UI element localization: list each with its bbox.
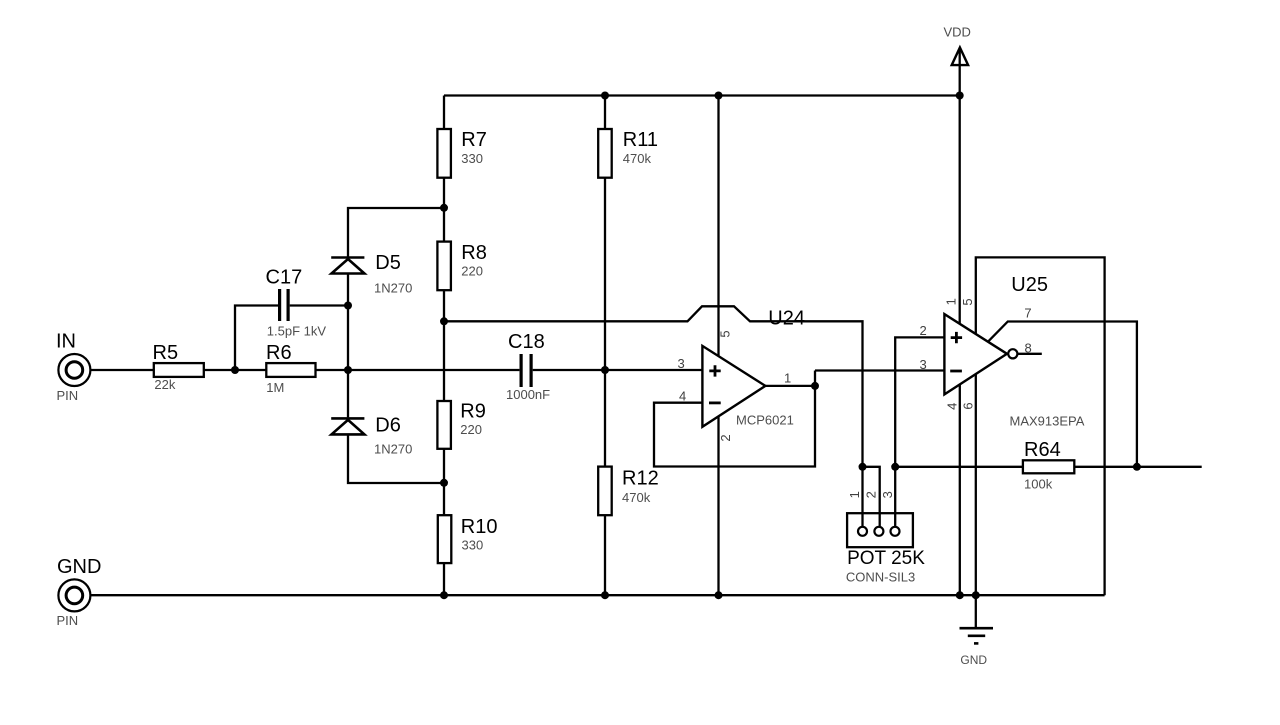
wire top supply bus	[444, 94, 960, 96]
wire U24 minus feedback loop	[654, 371, 815, 467]
svg-text:D6: D6	[375, 414, 401, 436]
svg-text:22k: 22k	[154, 377, 175, 392]
svg-text:1: 1	[944, 298, 959, 305]
wire IN to R5	[91, 369, 154, 371]
svg-text:R5: R5	[153, 342, 179, 364]
wire U25 pin6 to ground bus	[975, 374, 977, 595]
svg-text:D5: D5	[375, 252, 401, 274]
wire C17 to D5 stem	[290, 304, 348, 306]
svg-text:VDD: VDD	[944, 24, 971, 39]
svg-text:100k: 100k	[1024, 477, 1053, 492]
svg-text:GND: GND	[960, 653, 987, 667]
svg-text:3: 3	[880, 491, 895, 498]
wire U25 pin4 to ground bus	[959, 385, 961, 596]
svg-text:R6: R6	[266, 342, 292, 364]
svg-text:2: 2	[864, 491, 879, 498]
wire U25 plus input branch	[895, 337, 944, 466]
svg-text:220: 220	[461, 263, 483, 278]
svg-text:4: 4	[944, 403, 959, 410]
wire R64 left	[895, 466, 1023, 468]
ground symbol GND	[960, 595, 994, 667]
connector POT 25K CONN-SIL3	[846, 513, 925, 584]
wire R8 to R9	[443, 290, 445, 401]
node U25 pin4/bus junction	[956, 591, 964, 599]
node R11/bus junction	[601, 92, 609, 100]
svg-text:U24: U24	[768, 307, 805, 329]
capacitor C18	[506, 331, 550, 402]
svg-text:330: 330	[462, 537, 484, 552]
wire R11 top to bus	[604, 96, 606, 130]
svg-text:MAX913EPA: MAX913EPA	[1010, 413, 1085, 428]
svg-text:POT 25K: POT 25K	[847, 548, 925, 569]
svg-text:1N270: 1N270	[374, 281, 412, 296]
node R10/bus junction	[440, 591, 448, 599]
node R7/R8/D5 junction	[440, 204, 448, 212]
svg-text:R64: R64	[1024, 439, 1061, 461]
wire R7 to R8	[443, 178, 445, 242]
node U24 pin5/bus junction	[715, 92, 723, 100]
svg-text:3: 3	[920, 357, 927, 372]
wire VDD to U25 pin1	[959, 49, 961, 324]
svg-text:MCP6021: MCP6021	[736, 412, 794, 427]
wire D5 anode to node B	[347, 275, 349, 371]
resistor R5	[153, 342, 204, 392]
wire R64 right	[1074, 466, 1201, 468]
svg-text:1000nF: 1000nF	[506, 387, 550, 402]
node R8/R9/hop junction	[440, 317, 448, 325]
resistor R7	[437, 129, 486, 178]
svg-text:C18: C18	[508, 331, 545, 353]
wire R11 to R12	[604, 178, 606, 467]
svg-text:6: 6	[961, 402, 976, 409]
wire U25 pin7 output	[988, 322, 1137, 467]
wire hop line R8/R9 junction to U25 plus branch	[444, 306, 863, 467]
connector IN pin	[58, 354, 90, 386]
svg-text:CONN-SIL3: CONN-SIL3	[846, 569, 915, 584]
node R64/pin7 junction	[1133, 463, 1141, 471]
node U25 pin6/GND junction	[972, 591, 980, 599]
wire R7 top to bus	[443, 96, 445, 130]
svg-text:C17: C17	[266, 267, 303, 289]
comparator U25	[944, 274, 1084, 429]
wire D6 bottom to R9/R10 junction	[348, 436, 444, 484]
node VDD/bus junction	[956, 92, 964, 100]
diode D6	[331, 414, 412, 456]
resistor R10	[438, 515, 498, 563]
wire node B to D6	[347, 370, 349, 417]
wire U25 pin5 box path	[976, 257, 1105, 595]
wire R6 to node B	[316, 369, 349, 371]
wire C17 branch up	[235, 306, 278, 371]
wire U25 pin8 output stub	[1017, 353, 1041, 355]
connector GND pin	[58, 579, 90, 611]
wire POT pin1	[861, 467, 863, 527]
svg-text:5: 5	[718, 330, 733, 337]
wire POT pin3	[894, 467, 896, 527]
svg-text:U25: U25	[1011, 274, 1048, 296]
wire R12 to ground bus	[604, 515, 606, 595]
svg-text:3: 3	[678, 356, 685, 371]
resistor R9	[437, 401, 485, 449]
svg-text:GND: GND	[57, 556, 101, 578]
wire D5 top to R7/R8 junction	[348, 208, 444, 257]
node main/R11-R12 junction	[601, 366, 609, 374]
svg-text:R10: R10	[461, 516, 498, 538]
svg-text:PIN: PIN	[57, 613, 79, 628]
node R9/R10/D6 junction	[440, 479, 448, 487]
svg-text:1N270: 1N270	[374, 442, 412, 457]
resistor R8	[437, 242, 486, 291]
svg-text:IN: IN	[56, 331, 76, 353]
op-amp U24	[702, 307, 805, 427]
wire U24 output	[765, 385, 815, 387]
wire R10 to ground bus	[443, 563, 445, 595]
node B junction main/D5/D6	[344, 366, 352, 374]
resistor R6	[266, 342, 316, 395]
svg-text:1.5pF 1kV: 1.5pF 1kV	[267, 324, 327, 339]
wire POT pin2 stub	[863, 467, 880, 527]
svg-text:220: 220	[460, 422, 482, 437]
capacitor C17	[266, 267, 327, 339]
svg-text:330: 330	[461, 151, 483, 166]
svg-text:1: 1	[847, 491, 862, 498]
svg-text:R12: R12	[622, 467, 659, 489]
svg-text:2: 2	[920, 323, 927, 338]
wire bottom ground bus	[91, 594, 1105, 596]
diode D5	[331, 252, 412, 296]
resistor R12	[598, 467, 659, 516]
wire U24 pin2 to ground bus	[717, 416, 719, 595]
svg-text:7: 7	[1024, 305, 1031, 320]
svg-text:470k: 470k	[622, 490, 651, 505]
resistor R11	[598, 129, 658, 178]
svg-text:PIN: PIN	[57, 388, 79, 403]
node A junction R5/R6/C17	[231, 366, 239, 374]
node C17/D5 junction	[344, 302, 352, 310]
svg-text:R11: R11	[623, 129, 658, 151]
svg-text:4: 4	[679, 389, 686, 404]
svg-text:5: 5	[960, 298, 975, 305]
svg-text:2: 2	[718, 434, 733, 441]
svg-text:R8: R8	[461, 242, 487, 264]
node hop/POT1 junction	[859, 463, 867, 471]
resistor R64	[1023, 439, 1074, 491]
wire U24 pin5 supply	[717, 96, 719, 357]
svg-text:1: 1	[784, 370, 791, 385]
wire R5 to node A	[204, 369, 266, 371]
node U25+/POT3/R64 junction	[891, 463, 899, 471]
wire U24 out to U25 minus input	[815, 369, 944, 371]
wire main line node B to C18	[348, 369, 519, 371]
svg-text:R7: R7	[461, 129, 487, 151]
wire R9 to R10	[443, 449, 445, 515]
node R12/bus junction	[601, 591, 609, 599]
svg-text:470k: 470k	[623, 151, 652, 166]
node U24 output junction	[811, 382, 819, 390]
power VDD symbol	[944, 24, 971, 65]
svg-text:R9: R9	[460, 401, 486, 423]
svg-text:1M: 1M	[266, 380, 284, 395]
node U24 pin2/bus junction	[715, 591, 723, 599]
wire C18 to U24 plus input	[533, 369, 703, 371]
